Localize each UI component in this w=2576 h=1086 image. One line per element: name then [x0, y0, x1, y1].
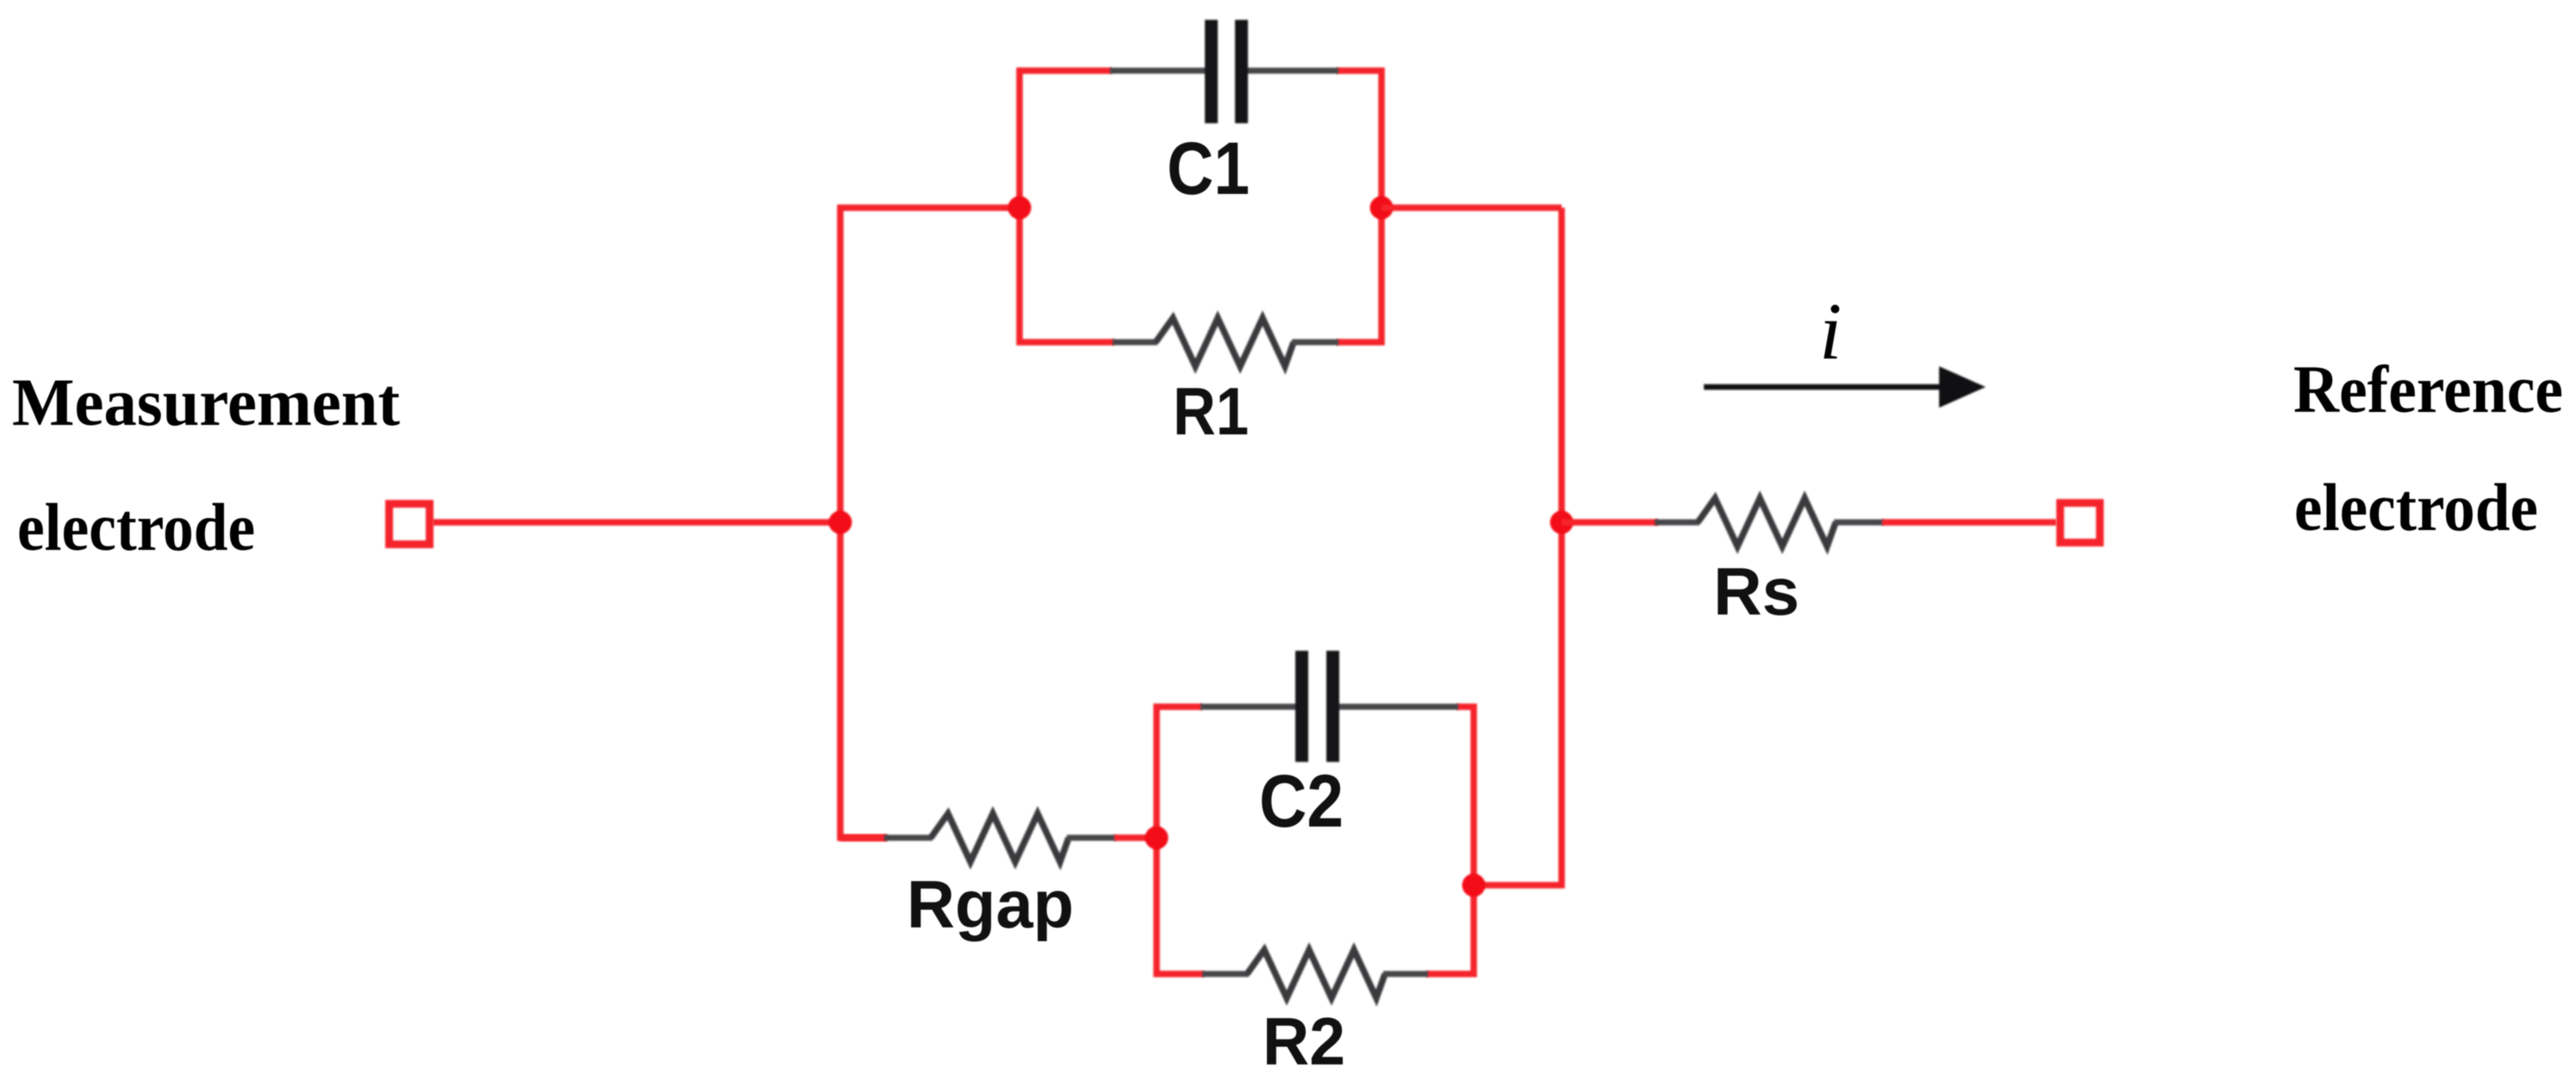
node C: right node of C1/R1 block — [1370, 197, 1394, 220]
svg-text:electrode: electrode — [2294, 470, 2538, 545]
node D: junction of Rs branch on right bus — [1550, 511, 1574, 534]
svg-text:Reference: Reference — [2293, 352, 2563, 427]
svg-text:electrode: electrode — [17, 490, 255, 565]
wire: right bus to Rs — [1562, 519, 1658, 526]
svg-text:C2: C2 — [1259, 760, 1344, 843]
wire: bottom branch stub from left bus corner — [840, 834, 888, 841]
svg-text:Rs: Rs — [1713, 553, 1799, 629]
node B: left node of C1/R1 block — [1008, 197, 1032, 220]
wire: C2/R2 block right side — [1426, 707, 1474, 974]
label C1 — [1167, 128, 1250, 210]
capacitor C2 — [1201, 651, 1458, 762]
label Rgap — [907, 866, 1074, 942]
svg-text:Rgap: Rgap — [907, 866, 1074, 942]
label Rs — [1713, 553, 1799, 629]
wire: Rs to reference electrode terminal — [1882, 519, 2056, 526]
resistor Rs — [1655, 498, 1884, 546]
wire: left vertical bus (top corner to bottom branch corner) — [840, 208, 1020, 838]
label R2 — [1263, 1003, 1345, 1079]
node A: junction of electrode wire and left bus — [829, 511, 852, 534]
terminal: measurement electrode square — [390, 504, 430, 545]
wire: C1/R1 block right side — [1337, 71, 1382, 342]
svg-text:R2: R2 — [1263, 1003, 1345, 1079]
terminal: reference electrode square — [2061, 503, 2100, 543]
label C2 — [1259, 760, 1344, 843]
current arrow i — [1704, 366, 1986, 408]
label R1 — [1173, 373, 1249, 449]
label Reference electrode — [2293, 352, 2563, 545]
label i (current) — [1819, 287, 1842, 377]
label Measurement electrode — [12, 365, 400, 565]
wire: Rgap to node E — [1114, 834, 1157, 841]
svg-text:C1: C1 — [1167, 128, 1250, 210]
wire: C1/R1 block right node to right bus — [1382, 204, 1562, 211]
svg-text:R1: R1 — [1173, 373, 1249, 449]
wire: measurement electrode to node A — [433, 519, 840, 526]
wire: C2/R2 block left side — [1157, 707, 1204, 974]
resistor Rgap — [884, 814, 1116, 862]
resistor R2 — [1202, 950, 1428, 998]
node F: right node of C2/R2 block — [1463, 874, 1486, 897]
wire: right vertical bus — [1474, 208, 1562, 885]
svg-text:Measurement: Measurement — [12, 365, 400, 440]
node E: left node of C2/R2 block — [1145, 827, 1169, 850]
capacitor C1 — [1110, 20, 1338, 123]
svg-text:i: i — [1819, 287, 1842, 377]
wire: C1/R1 block left side — [1020, 71, 1114, 342]
resistor R1 — [1113, 318, 1338, 366]
